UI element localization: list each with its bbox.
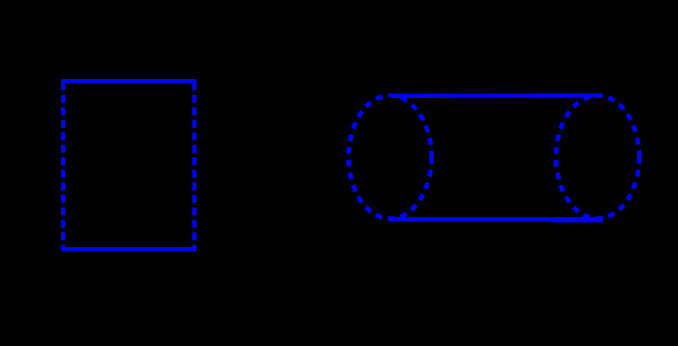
rectangle right edge (dashed): [192, 82, 196, 250]
rectangle bottom edge (solid): [61, 247, 195, 251]
cylinder right ellipse (dashed): [556, 96, 639, 219]
cylinder bottom line lower-right overlap segment: [551, 219, 603, 222]
cylinder top line (solid): [389, 94, 603, 98]
rectangle top edge (solid): [61, 79, 197, 83]
cylinder bottom line (solid): [388, 217, 603, 221]
rectangle left edge (dashed): [61, 82, 65, 250]
cylinder left ellipse (dashed): [349, 96, 432, 219]
